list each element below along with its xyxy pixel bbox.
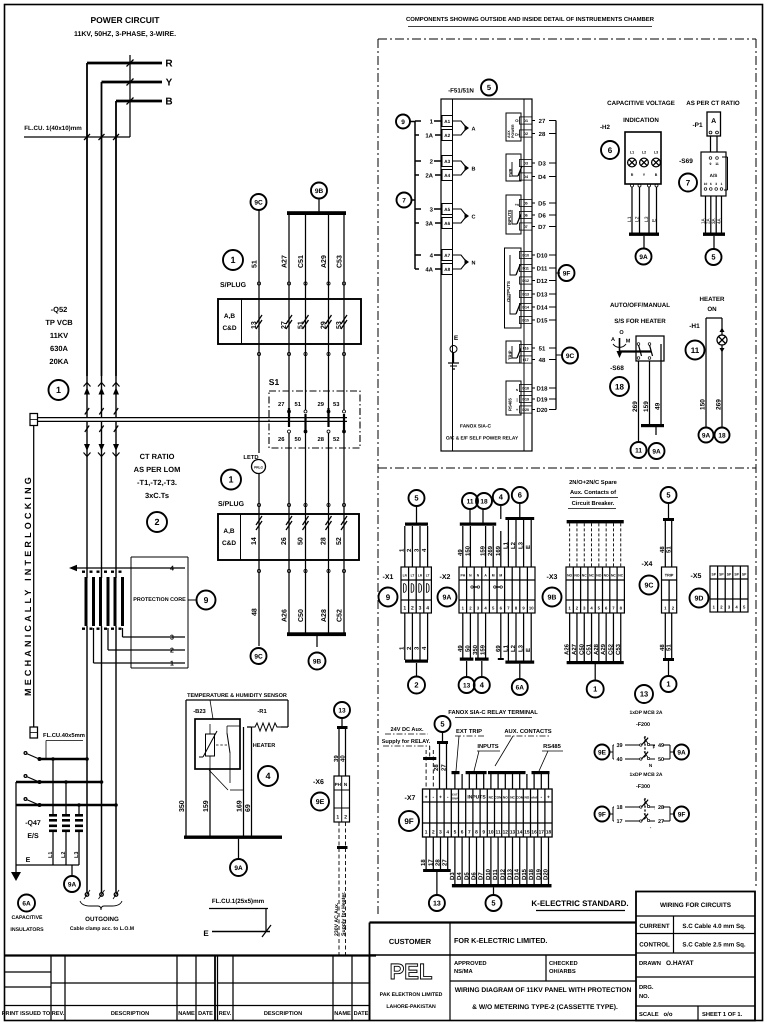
svg-text:A29: A29 (600, 643, 607, 655)
svg-text:9D: 9D (695, 596, 704, 603)
svg-text:FL.CU.40x5mm: FL.CU.40x5mm (43, 732, 85, 739)
svg-text:TP VCB: TP VCB (45, 318, 73, 327)
svg-text:CUSTOMER: CUSTOMER (389, 937, 432, 946)
svg-text:06: 06 (524, 214, 528, 218)
svg-text:27: 27 (278, 401, 284, 408)
svg-text:WIRING DIAGRAM OF 11KV PANEL W: WIRING DIAGRAM OF 11KV PANEL WITH PROTEC… (455, 987, 632, 994)
plug contacts upper box (258, 299, 260, 344)
svg-text:DESCRIPTION: DESCRIPTION (111, 1011, 149, 1017)
protection core box (130, 557, 132, 668)
svg-text:28: 28 (435, 859, 442, 866)
X7 bottom bar 1-4 + bubble 13 (423, 869, 451, 872)
relay rs485 block (506, 381, 521, 415)
svg-text:52: 52 (333, 436, 339, 443)
svg-text:28: 28 (320, 537, 327, 545)
wire: H1 wires (721, 327, 723, 335)
svg-text:NAME: NAME (178, 1011, 195, 1017)
wire: CT line 4 with arrow (69, 565, 77, 571)
bubble 9A H2 (636, 249, 652, 265)
svg-text:AS PER CT RATIO: AS PER CT RATIO (686, 100, 740, 107)
svg-text:D15: D15 (536, 317, 548, 324)
svg-text:L2: L2 (510, 541, 517, 549)
svg-text:NO: NO (503, 796, 508, 800)
bubble 18 S68 (610, 377, 629, 396)
svg-text:S1: S1 (269, 377, 280, 387)
svg-text:POWER CIRCUIT: POWER CIRCUIT (91, 15, 161, 25)
svg-text:18: 18 (546, 830, 552, 836)
svg-text:A26: A26 (282, 609, 289, 622)
bubble 4 sensor (258, 766, 278, 786)
svg-text:3A: 3A (425, 220, 433, 227)
svg-text:4A: 4A (716, 217, 721, 224)
svg-text:017: 017 (523, 358, 529, 362)
relay body box (441, 99, 532, 451)
svg-text:LR: LR (403, 574, 408, 578)
svg-text:350: 350 (179, 800, 186, 812)
svg-text:A7: A7 (444, 253, 450, 258)
svg-text:2: 2 (432, 830, 435, 836)
H2 bottom bar (629, 233, 659, 236)
wire: between S1 and lower box (258, 474, 260, 514)
X1 top bar + bubble 5 (405, 523, 428, 526)
svg-text:7: 7 (402, 197, 406, 204)
svg-text:|: | (516, 397, 517, 402)
svg-text:49: 49 (655, 402, 662, 410)
relay outputs block (505, 248, 522, 328)
wire: flcu bar line (24, 136, 130, 138)
svg-text:1: 1 (56, 385, 61, 395)
svg-text:5: 5 (487, 83, 491, 92)
svg-text:350: 350 (472, 644, 479, 655)
svg-text:A4: A4 (444, 173, 450, 178)
wire: incoming drop at x=130 (129, 55, 131, 137)
svg-text:D11: D11 (537, 265, 548, 272)
svg-text:4A: 4A (425, 266, 433, 273)
svg-text:R: R (165, 59, 173, 70)
svg-text:40: 40 (616, 757, 622, 763)
svg-text:6: 6 (518, 491, 522, 500)
svg-text:2: 2 (344, 815, 347, 821)
svg-text:24V DC Aux.: 24V DC Aux. (390, 727, 424, 733)
switch S1 box (269, 391, 360, 448)
VCB drawout contacts Q52 (86, 376, 88, 417)
svg-text:169: 169 (237, 800, 244, 812)
svg-text:D10: D10 (522, 254, 529, 258)
svg-text:K-ELECTRIC STANDARD.: K-ELECTRIC STANDARD. (531, 899, 628, 908)
top terminal bar 9B (287, 211, 346, 215)
svg-text:L1: L1 (48, 852, 54, 858)
svg-text:150: 150 (464, 545, 471, 556)
svg-text:DATE: DATE (198, 1011, 213, 1017)
svg-text:shd: shd (531, 796, 537, 800)
svg-text:HEATER: HEATER (700, 296, 726, 303)
title block outer (370, 921, 637, 923)
bubble 9B lower (309, 653, 326, 670)
svg-text:N: N (472, 261, 476, 267)
svg-text:MECHANICALLY INTERLOCKING: MECHANICALLY INTERLOCKING (23, 474, 33, 696)
svg-text:+: + (547, 795, 550, 801)
svg-text:9F: 9F (598, 811, 606, 818)
svg-text:M: M (492, 574, 495, 578)
svg-text:A6: A6 (444, 221, 450, 226)
wire: R1 leads (287, 700, 289, 727)
chamber dash-dot border (378, 38, 756, 40)
svg-text:D10: D10 (536, 252, 548, 259)
H2 terminals (631, 184, 634, 187)
svg-text:D11: D11 (492, 869, 499, 880)
svg-text:5: 5 (666, 491, 670, 500)
svg-text:OH/ARBS: OH/ARBS (549, 968, 576, 975)
interlock vertical link (33, 426, 35, 728)
svg-text:159: 159 (203, 800, 210, 812)
wire: relay left wires 1..4A (415, 120, 442, 122)
svg-text:COMPONENTS SHOWING OUTSIDE AND: COMPONENTS SHOWING OUTSIDE AND INSIDE DE… (406, 16, 655, 23)
svg-text:7: 7 (686, 178, 691, 187)
svg-text:26: 26 (281, 537, 288, 545)
svg-text:C51: C51 (586, 643, 593, 655)
svg-text:S/S FOR HEATER: S/S FOR HEATER (614, 318, 666, 325)
svg-text:E/S: E/S (27, 832, 39, 840)
svg-text:PEL: PEL (390, 959, 433, 984)
svg-text:9C: 9C (254, 653, 263, 660)
svg-text:C50: C50 (298, 609, 305, 622)
terminal block -X3 (566, 567, 624, 613)
svg-text:17: 17 (427, 859, 434, 866)
bubble 9E X6 (311, 793, 329, 811)
svg-text:39: 39 (333, 755, 340, 762)
svg-text:D20: D20 (536, 407, 548, 414)
svg-text:B: B (165, 97, 172, 108)
svg-text:9: 9 (204, 595, 209, 605)
svg-text:-F51/51N: -F51/51N (448, 88, 474, 95)
svg-text:NS/MA: NS/MA (454, 968, 473, 975)
svg-text:2: 2 (414, 681, 418, 690)
mechanical interlock bar (30, 414, 38, 426)
svg-text:FANOX SIA-C RELAY TERMINAL: FANOX SIA-C RELAY TERMINAL (448, 709, 538, 716)
svg-text:269: 269 (632, 401, 639, 412)
svg-text:B: B (655, 173, 658, 177)
svg-text:11: 11 (467, 498, 474, 505)
svg-text:3: 3 (419, 606, 422, 612)
svg-text:NO: NO (604, 574, 609, 578)
svg-text:R: R (631, 173, 634, 177)
svg-text:159: 159 (480, 644, 487, 655)
svg-text:E: E (454, 335, 459, 342)
terminal block -X2 (459, 567, 535, 613)
svg-text:C53: C53 (615, 643, 622, 655)
svg-text:269: 269 (716, 399, 723, 410)
svg-text:-B23: -B23 (193, 708, 206, 715)
svg-text:20KA: 20KA (49, 357, 69, 366)
svg-text:E: E (26, 857, 31, 864)
outgoing cable ends (86, 759, 88, 893)
svg-text:9B: 9B (313, 658, 322, 665)
svg-text:11: 11 (691, 346, 700, 355)
svg-text:28: 28 (658, 805, 664, 811)
bubble 5 X7 supply (435, 716, 451, 732)
svg-text:COM: COM (516, 796, 524, 800)
current transformers 3xCT (85, 577, 88, 626)
svg-text:D6: D6 (471, 872, 478, 880)
svg-text:016: 016 (523, 347, 529, 351)
svg-text:A28: A28 (593, 643, 600, 655)
svg-text:13: 13 (510, 830, 516, 836)
svg-text:DATE: DATE (354, 1011, 369, 1017)
svg-text:10: 10 (529, 606, 534, 611)
svg-text:05: 05 (524, 202, 528, 206)
svg-text:NO.: NO. (639, 993, 650, 1000)
svg-text:49: 49 (658, 743, 664, 749)
svg-text:D14: D14 (522, 306, 529, 310)
wire: X2 top fans (462, 526, 464, 567)
svg-text:-X4: -X4 (642, 561, 653, 568)
svg-text:CAPACITIVE VOLTAGE: CAPACITIVE VOLTAGE (607, 100, 675, 107)
earth switch -Q47 blades (24, 752, 27, 755)
svg-text:2N/O+2N/C Spare: 2N/O+2N/C Spare (569, 479, 618, 486)
svg-text:3xC.Ts: 3xC.Ts (145, 491, 169, 500)
svg-text:D15: D15 (522, 319, 529, 323)
wire: X4 bottom pair (664, 613, 666, 658)
svg-text:COM: COM (494, 796, 502, 800)
svg-text:DRAWN: DRAWN (639, 961, 661, 967)
terminal block -X1 (401, 567, 431, 613)
svg-text:9A: 9A (702, 432, 711, 439)
svg-text:NO: NO (567, 574, 572, 578)
svg-text:M: M (499, 574, 502, 578)
svg-text:PROTECTION CORE: PROTECTION CORE (133, 597, 186, 603)
svg-text:69: 69 (495, 645, 502, 652)
customer row (370, 954, 637, 956)
svg-text:D18: D18 (522, 387, 529, 391)
svg-text:FOR K-ELECTRIC LIMITED.: FOR K-ELECTRIC LIMITED. (454, 936, 547, 945)
svg-text:D3: D3 (538, 160, 546, 167)
svg-text:NO: NO (525, 796, 530, 800)
svg-text:LAHORE-PAKISTAN: LAHORE-PAKISTAN (386, 1004, 436, 1010)
relay pwr fail block (506, 154, 521, 181)
svg-text:2: 2 (170, 648, 174, 655)
capacitive insulators L1 L2 L3 (51, 757, 55, 761)
svg-text:C50: C50 (578, 643, 585, 655)
relay inputs block (506, 195, 521, 234)
svg-text:FL.CU. 1(40x10)mm: FL.CU. 1(40x10)mm (24, 125, 82, 132)
svg-text:O.HAYAT: O.HAYAT (666, 960, 694, 967)
svg-text:NC: NC (582, 574, 587, 578)
svg-text:27: 27 (442, 859, 449, 866)
svg-text:O+: O+ (515, 132, 521, 137)
svg-text:51: 51 (666, 644, 673, 651)
svg-text:3: 3 (715, 182, 717, 186)
svg-text:1xDP MCB 2A: 1xDP MCB 2A (630, 772, 663, 778)
svg-text:EXT TRIP: EXT TRIP (456, 729, 482, 735)
wire: phase continuation through CT (86, 626, 88, 759)
svg-text:S/PLUG: S/PLUG (218, 500, 245, 508)
svg-text:A/S: A/S (710, 173, 718, 178)
svg-text:1A: 1A (700, 217, 705, 224)
svg-text:+: + (439, 795, 442, 801)
s/plug box lower A,B C&D (218, 514, 359, 560)
svg-text:D20: D20 (522, 408, 529, 412)
terminal block -X5 (710, 566, 748, 612)
svg-text:18: 18 (420, 859, 427, 866)
svg-text:16: 16 (531, 830, 537, 836)
bubble 6A capacitive insulators (18, 895, 35, 912)
approved / checked row (450, 980, 636, 982)
svg-text:D1: D1 (523, 119, 528, 123)
svg-text:9A: 9A (652, 448, 661, 455)
svg-text:SP: SP (742, 573, 747, 577)
svg-text:53: 53 (333, 401, 340, 408)
bubble 9C top (251, 194, 267, 210)
svg-text:5: 5 (711, 253, 715, 262)
svg-text:18: 18 (718, 432, 726, 439)
svg-text:3: 3 (439, 830, 442, 836)
svg-text:40: 40 (340, 755, 347, 762)
svg-text:S/PLUG: S/PLUG (220, 281, 247, 289)
svg-text:150: 150 (700, 399, 707, 410)
svg-text:9E: 9E (316, 799, 325, 806)
svg-text:AS PER LOM: AS PER LOM (134, 465, 181, 474)
svg-text:6A: 6A (22, 900, 31, 907)
svg-text:18: 18 (480, 498, 488, 505)
relay trip block (506, 341, 521, 363)
svg-text:3A: 3A (711, 217, 716, 224)
svg-text:D14: D14 (514, 868, 521, 880)
svg-text:14: 14 (517, 830, 523, 836)
svg-text:SHEET 1 OF 1.: SHEET 1 OF 1. (702, 1011, 743, 1018)
terminal block -X6 (334, 776, 350, 822)
svg-text:13: 13 (338, 707, 346, 714)
svg-text:M: M (626, 339, 631, 345)
bus R (87, 62, 162, 65)
svg-text:D13: D13 (522, 293, 529, 297)
svg-text:18: 18 (616, 805, 622, 811)
wire: X7 28/27 pair (439, 744, 441, 789)
svg-text:-F200: -F200 (636, 722, 650, 728)
svg-text:49: 49 (457, 645, 464, 652)
svg-text:C53: C53 (337, 255, 344, 268)
svg-text:1A: 1A (425, 132, 433, 139)
svg-text:C52: C52 (607, 643, 614, 655)
svg-text:630A: 630A (50, 344, 69, 353)
X2 bottom bars + bubbles (460, 658, 474, 661)
svg-text:4: 4 (426, 606, 429, 612)
svg-text:1: 1 (425, 830, 428, 836)
svg-text:CONTROL: CONTROL (639, 942, 670, 949)
svg-text:TRIP: TRIP (452, 797, 459, 801)
svg-text:-T1,-T2,-T3.: -T1,-T2,-T3. (137, 478, 177, 487)
svg-text:Supply for Heater.: Supply for Heater. (341, 891, 347, 936)
svg-text:10: 10 (704, 182, 708, 186)
svg-text:S.C Cable 2.5 mm Sq.: S.C Cable 2.5 mm Sq. (682, 942, 746, 949)
svg-text:5: 5 (440, 720, 444, 729)
X2 top bar 11/18 (460, 523, 496, 526)
svg-text:9A: 9A (443, 595, 452, 602)
plug contacts lower box (258, 514, 260, 560)
svg-text:TRIP: TRIP (665, 574, 674, 578)
svg-text:D4: D4 (456, 872, 463, 880)
svg-text:NC: NC (510, 796, 515, 800)
bubble 9 X1 (379, 588, 398, 607)
bubble 9B X3 (543, 588, 562, 607)
svg-text:A27: A27 (571, 643, 578, 655)
svg-text:6: 6 (710, 182, 712, 186)
svg-text:AUTO/OFF/MANUAL: AUTO/OFF/MANUAL (610, 302, 670, 309)
wire: X3 dashed top fan (569, 523, 571, 567)
svg-text:L1: L1 (502, 541, 509, 549)
svg-text:NO: NO (596, 574, 601, 578)
svg-text:48: 48 (659, 546, 666, 553)
S68 bottom bar (641, 424, 664, 427)
svg-text:D19: D19 (522, 398, 529, 402)
svg-text:LR: LR (418, 574, 423, 578)
svg-text:17: 17 (539, 830, 545, 836)
X1 disconnect links (404, 584, 407, 593)
svg-text:D2: D2 (523, 132, 528, 136)
svg-text:7: 7 (468, 830, 471, 836)
svg-text:159: 159 (643, 401, 650, 412)
bubble 9F relay outputs (556, 272, 560, 274)
PEL logo (449, 955, 451, 1021)
svg-text:D19: D19 (535, 868, 542, 880)
bubble 9A S68 (649, 443, 665, 459)
svg-text:REV.: REV. (52, 1011, 65, 1017)
svg-text:230V AC Aux.: 230V AC Aux. (334, 902, 340, 936)
svg-text:E: E (203, 929, 209, 938)
bubble 11 H1 (686, 341, 705, 360)
terminal block -X4 (662, 567, 677, 613)
svg-text:L1: L1 (502, 644, 509, 652)
svg-text:9E: 9E (598, 749, 607, 756)
svg-text:CAPACITIVE: CAPACITIVE (11, 915, 43, 921)
svg-text:SP: SP (734, 573, 739, 577)
svg-text:ON: ON (707, 306, 717, 313)
svg-text:LT: LT (411, 574, 415, 578)
svg-text:11KV, 50HZ, 3-PHASE, 3-WIRE.: 11KV, 50HZ, 3-PHASE, 3-WIRE. (74, 31, 176, 38)
svg-text:-P1: -P1 (692, 122, 703, 129)
humidity switch contact (227, 733, 230, 753)
svg-text:L3: L3 (518, 644, 525, 652)
svg-text:2A: 2A (425, 172, 433, 179)
svg-text:L2: L2 (510, 644, 517, 652)
svg-text:17: 17 (616, 819, 622, 825)
svg-text:12: 12 (503, 830, 509, 836)
wire: X7 dashed supply pair (425, 750, 427, 789)
svg-text:52: 52 (336, 537, 343, 545)
svg-text:PRLG: PRLG (254, 466, 263, 470)
svg-text:9B: 9B (548, 595, 557, 602)
relay left terminals A1-A8 (442, 116, 453, 127)
svg-text:-F300: -F300 (636, 784, 650, 790)
svg-text:L2: L2 (634, 216, 640, 222)
X1 bottom bar + bubble 2 (405, 660, 428, 663)
svg-text:9A: 9A (639, 254, 648, 261)
svg-text:E: E (525, 545, 532, 549)
X7 bottom bar 5-18 + bubble 5 (452, 884, 552, 887)
bubble 9C relay trip (556, 354, 562, 356)
svg-text:169: 169 (495, 545, 502, 556)
svg-text:A2: A2 (444, 133, 450, 138)
svg-text:L3: L3 (74, 852, 80, 858)
svg-text:D4: D4 (538, 174, 546, 181)
svg-text:11: 11 (715, 162, 719, 166)
svg-text:11: 11 (496, 830, 501, 836)
svg-text:-X3: -X3 (547, 574, 558, 581)
bus Y (102, 81, 163, 84)
svg-text:1: 1 (228, 475, 233, 485)
bubble 9D X5 (690, 589, 709, 608)
svg-text:A5: A5 (444, 207, 450, 212)
svg-text:-X1: -X1 (383, 574, 394, 581)
